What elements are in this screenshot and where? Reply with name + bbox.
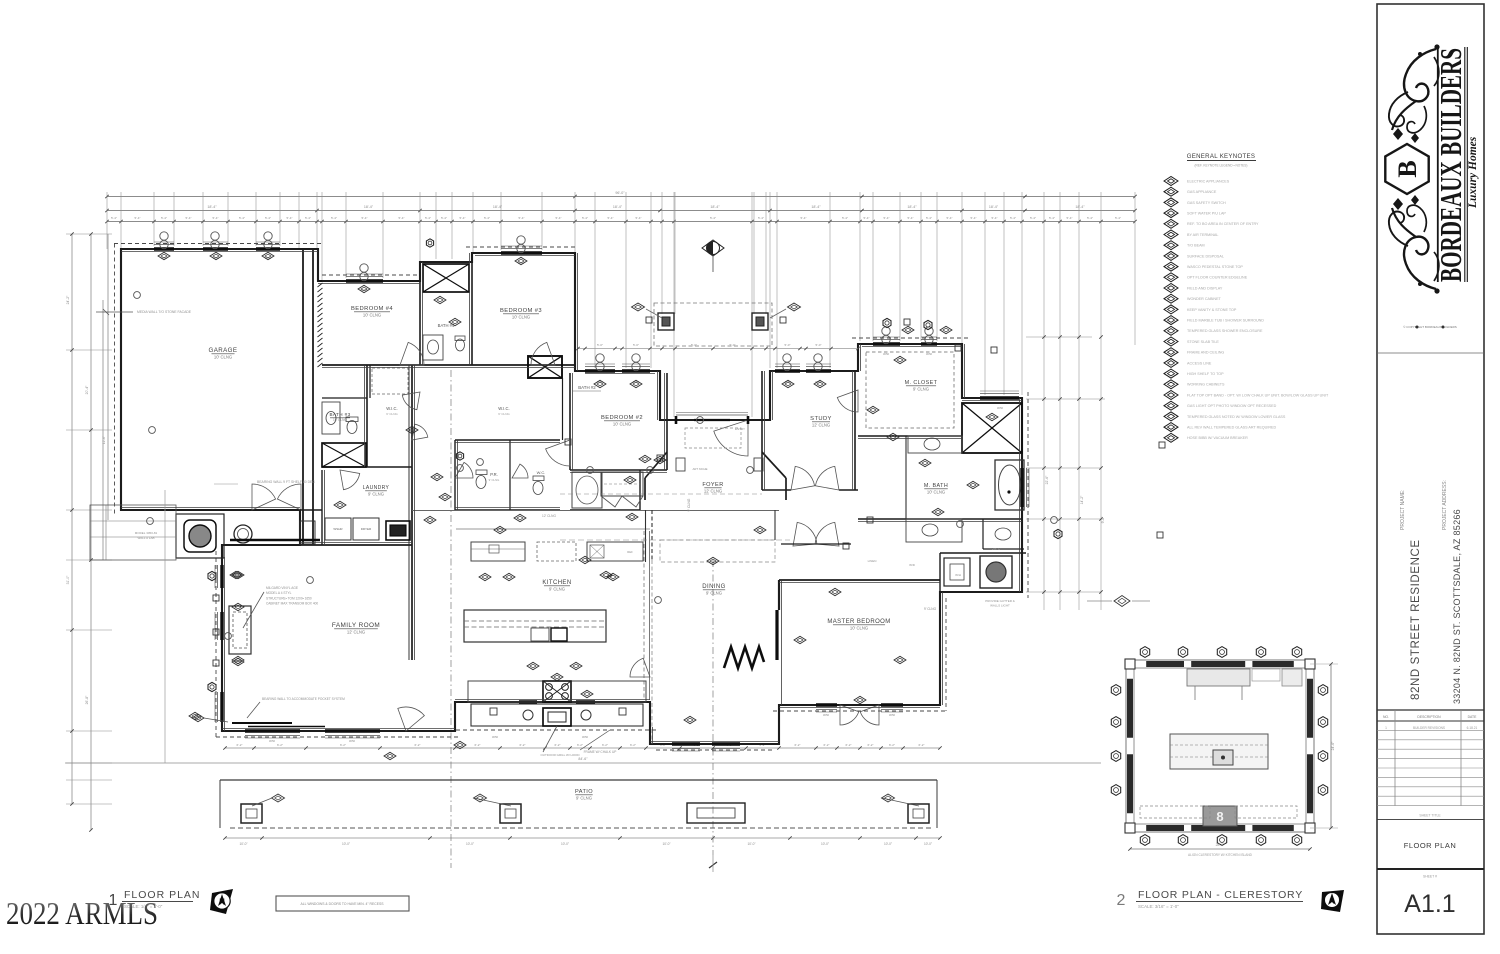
svg-text:9' CLNG: 9' CLNG: [549, 587, 565, 592]
sheet number band: [1377, 868, 1484, 870]
svg-text:6'-2": 6'-2": [919, 743, 925, 747]
wall poche parallel lines: [322, 367, 575, 369]
svg-text:BEDROOM #2: BEDROOM #2: [601, 415, 643, 421]
svg-text:WORKING CABINETS: WORKING CABINETS: [1187, 383, 1225, 387]
svg-text:6'-2": 6'-2": [602, 743, 608, 747]
keynote row 24: [1164, 423, 1178, 432]
svg-text:6' CLNG: 6' CLNG: [498, 412, 510, 416]
svg-text:5'-0": 5'-0": [691, 343, 697, 347]
mud threshold hatch: [230, 539, 320, 541]
bedroom2 walls: [569, 373, 571, 470]
svg-text:DESCRIPTION: DESCRIPTION: [1417, 715, 1441, 719]
windows kitchen south: [519, 700, 537, 703]
front entry door: [714, 420, 748, 456]
svg-text:6'-2": 6'-2": [630, 743, 636, 747]
keynote row 1: [1164, 177, 1178, 186]
bath4 west wall: [419, 262, 421, 365]
svg-text:N: N: [1329, 897, 1334, 906]
svg-text:5'-4": 5'-4": [971, 216, 977, 220]
svg-text:9' CLNG: 9' CLNG: [687, 498, 691, 511]
svg-text:10'-0": 10'-0": [466, 842, 474, 846]
svg-text:LAUNDRY: LAUNDRY: [363, 485, 390, 491]
svg-text:3050: 3050: [926, 352, 933, 356]
svg-text:5'-4": 5'-4": [1087, 216, 1093, 220]
clerestory island: [1170, 734, 1268, 769]
svg-text:SURFACE DISPOSAL: SURFACE DISPOSAL: [1187, 254, 1224, 258]
svg-text:B: B: [1393, 160, 1422, 177]
mud wh circle: [234, 525, 252, 543]
svg-text:6'-2": 6'-2": [555, 743, 561, 747]
family fireplace: [229, 606, 251, 654]
svg-text:12' CLNG: 12' CLNG: [812, 423, 830, 428]
bed2 door: [546, 440, 570, 466]
svg-text:PWDR: PWDR: [992, 547, 1001, 551]
svg-text:5'-4": 5'-4": [1067, 216, 1073, 220]
svg-text:PROJECT ADDRESS:: PROJECT ADDRESS:: [1442, 480, 1448, 530]
svg-text:KEEP VANITY & STONE TOP: KEEP VANITY & STONE TOP: [1187, 308, 1237, 312]
svg-text:BEARING WALL 9 FT SHELF 80 DEG: BEARING WALL 9 FT SHELF 80 DEG: [257, 480, 315, 484]
svg-text:FLAT TOP OPT BAND - OPT. W/ LO: FLAT TOP OPT BAND - OPT. W/ LOW CHALK UP…: [1187, 393, 1329, 397]
windows family south: [245, 729, 300, 732]
svg-text:6'-2": 6'-2": [795, 743, 801, 747]
svg-text:10'-0": 10'-0": [924, 842, 932, 846]
keynote row 18: [1164, 358, 1178, 367]
svg-text:GENERAL KEYNOTES: GENERAL KEYNOTES: [1187, 153, 1256, 160]
bath3 walls: [366, 365, 368, 467]
svg-text:5'-4": 5'-4": [362, 216, 368, 220]
svg-text:OPT FLOOR COUNTER EDGELINE: OPT FLOOR COUNTER EDGELINE: [1187, 276, 1248, 280]
svg-text:10' CLNG: 10' CLNG: [333, 418, 347, 422]
svg-text:TEMPERED GLASS NOTED W/ WIND: TEMPERED GLASS NOTED W/ WINDOW LOWER GLA…: [1187, 415, 1286, 419]
svg-text:5'-0": 5'-0": [633, 343, 639, 347]
svg-text:5'-0": 5'-0": [785, 343, 791, 347]
keynote row 20: [1164, 380, 1178, 389]
svg-text:FIELD MARBLE TUB / SHOWER SURR: FIELD MARBLE TUB / SHOWER SURROUND: [1187, 319, 1264, 323]
svg-text:5'-4": 5'-4": [111, 216, 117, 220]
svg-text:OUTDOOR GRILL W/ HOOD: OUTDOOR GRILL W/ HOOD: [540, 753, 580, 757]
bbq sink: [543, 708, 571, 726]
svg-text:2: 2: [1117, 892, 1126, 909]
bath4 toilet: [456, 339, 465, 351]
svg-text:LINEN: LINEN: [868, 559, 877, 563]
svg-text:A1.1: A1.1: [1404, 890, 1455, 918]
svg-text:18'-4": 18'-4": [1075, 205, 1085, 209]
svg-text:5'-4": 5'-4": [135, 216, 141, 220]
svg-text:3050: 3050: [889, 713, 896, 717]
hatched wall garage-bed4: [318, 280, 322, 282]
keynote row 15: [1164, 326, 1178, 335]
svg-text:MASTER BEDROOM: MASTER BEDROOM: [827, 619, 890, 625]
svg-text:FAMILY ROOM: FAMILY ROOM: [332, 622, 380, 629]
note box: [276, 896, 409, 911]
water heater pad outside: [176, 514, 224, 558]
family south door: [398, 707, 425, 731]
svg-text:PROJECT NAME:: PROJECT NAME:: [1400, 490, 1406, 530]
svg-text:6'-2": 6'-2": [889, 743, 895, 747]
svg-text:9' CLNG: 9' CLNG: [368, 492, 384, 497]
svg-text:5'-4": 5'-4": [1030, 216, 1036, 220]
patio columns: [241, 804, 262, 823]
bath2 walls: [570, 509, 640, 511]
svg-text:6.18.21: 6.18.21: [1467, 726, 1478, 730]
clerestory corner posts: [1125, 659, 1135, 669]
svg-text:5'-4": 5'-4": [608, 216, 614, 220]
svg-text:WSHR: WSHR: [333, 527, 343, 531]
svg-text:28'-0": 28'-0": [1216, 843, 1225, 847]
svg-text:5'-4": 5'-4": [161, 216, 167, 220]
garage south door arcs: [252, 484, 276, 510]
svg-text:5'-4": 5'-4": [460, 216, 466, 220]
svg-text:3050: 3050: [269, 739, 276, 743]
svg-text:9' CLNG: 9' CLNG: [706, 591, 722, 596]
gallery corridor header line: [412, 510, 779, 512]
svg-text:DRYER: DRYER: [361, 527, 372, 531]
keynote diamond right side: [1087, 600, 1112, 602]
svg-text:10'-0": 10'-0": [821, 842, 829, 846]
clerestory dim right: [1330, 664, 1332, 828]
svg-text:GAS APPLIANCE: GAS APPLIANCE: [1187, 190, 1217, 194]
dashed roof eave lines: [114, 243, 322, 245]
keynote row 19: [1164, 369, 1178, 378]
svg-text:BUILDER REVISIONS: BUILDER REVISIONS: [1413, 726, 1445, 730]
bath4 east wall: [471, 253, 473, 365]
kitchen range: [543, 681, 571, 702]
master west thick segments: [775, 610, 778, 660]
svg-text:KITCHEN: KITCHEN: [542, 580, 571, 586]
svg-text:18'-4": 18'-4": [989, 205, 999, 209]
svg-text:FRAME W/ CHALK UP: FRAME W/ CHALK UP: [584, 750, 617, 754]
svg-text:DATE: DATE: [1468, 715, 1478, 719]
clerestory 8 badge: [1203, 806, 1237, 826]
dining east cased opening: [774, 510, 776, 540]
hall powder walls: [455, 439, 560, 441]
svg-text:82ND STREET RESIDENCE: 82ND STREET RESIDENCE: [1410, 539, 1422, 700]
svg-text:5'-4": 5'-4": [926, 216, 932, 220]
svg-text:WASCO PEDESTAL STONE TOP: WASCO PEDESTAL STONE TOP: [1187, 265, 1243, 269]
ac closet: [528, 356, 562, 378]
laundry door: [340, 470, 360, 490]
laundry appliances: [325, 518, 351, 540]
svg-text:5'-4": 5'-4": [399, 216, 405, 220]
svg-text:W.I.C.: W.I.C.: [498, 406, 509, 411]
svg-text:18'-4": 18'-4": [493, 205, 503, 209]
clerestory interior stubs: [1194, 686, 1196, 700]
svg-text:ACCESS LINE: ACCESS LINE: [1187, 361, 1212, 365]
small circles scattered: [134, 292, 141, 299]
svg-text:SOFT WATER P/U LAP: SOFT WATER P/U LAP: [1187, 212, 1226, 216]
svg-text:WONDER CABINET: WONDER CABINET: [1187, 297, 1222, 301]
svg-text:5'-4": 5'-4": [213, 216, 219, 220]
svg-text:Luxury Homes: Luxury Homes: [1467, 136, 1479, 209]
svg-text:BEDROOM #4: BEDROOM #4: [351, 306, 393, 312]
family west wall keynotes: [208, 571, 216, 580]
svg-text:3050: 3050: [997, 406, 1004, 410]
svg-text:WALLS LIGHT: WALLS LIGHT: [990, 604, 1010, 608]
mbath vanity south: [906, 519, 962, 542]
svg-text:SCALE: 3/16" = 1'-0": SCALE: 3/16" = 1'-0": [1138, 904, 1179, 909]
keynote row 4: [1164, 209, 1178, 218]
svg-text:3050: 3050: [582, 735, 589, 739]
title block border: [1377, 4, 1484, 934]
north compass 2: [1321, 890, 1344, 912]
keynote row 16: [1164, 337, 1178, 346]
svg-text:GAS LIGHT OPT PHOTO WINDOW OPT: GAS LIGHT OPT PHOTO WINDOW OPT RECESSED: [1187, 404, 1277, 408]
patio bench: [687, 803, 745, 823]
svg-text:12' CLNG: 12' CLNG: [542, 514, 556, 518]
svg-text:NO.: NO.: [1383, 715, 1389, 719]
svg-text:6'-2": 6'-2": [340, 743, 346, 747]
bedroom4 south wall: [322, 364, 575, 366]
dimension lines bottom: [225, 747, 940, 749]
window sills outside walls: [154, 244, 174, 246]
svg-text:18'-4": 18'-4": [364, 205, 374, 209]
hall arc near wic: [412, 424, 428, 440]
bed3 door: [531, 342, 555, 365]
svg-text:ELECTRIC APPLIANCES: ELECTRIC APPLIANCES: [1187, 179, 1230, 183]
dining west cased opening: [645, 510, 647, 562]
svg-text:BY AIR TERMINAL: BY AIR TERMINAL: [1187, 233, 1218, 237]
svg-text:FOYER: FOYER: [702, 482, 723, 488]
svg-text:5'-4": 5'-4": [582, 216, 588, 220]
entry sill lines: [676, 414, 748, 416]
svg-text:18'-4": 18'-4": [907, 205, 917, 209]
keynote row 21: [1164, 391, 1178, 400]
foyer art niche rects: [676, 458, 685, 471]
keynote row 23: [1164, 412, 1178, 421]
laundry walls: [321, 470, 323, 545]
svg-text:12' CLNG: 12' CLNG: [347, 630, 365, 635]
utility box: [944, 558, 970, 586]
small squares keynote: [904, 319, 910, 325]
bath4 vanity: [423, 335, 443, 360]
svg-text:20'-4": 20'-4": [85, 385, 89, 394]
svg-text:5'-4": 5'-4": [425, 216, 431, 220]
mud hall walls: [300, 509, 322, 511]
svg-text:REF. TO BO AREA IN CENTER OF E: REF. TO BO AREA IN CENTER OF ENTRY: [1187, 222, 1259, 226]
svg-text:5'-4": 5'-4": [1049, 216, 1055, 220]
svg-text:M. BATH: M. BATH: [924, 483, 948, 489]
svg-text:W/D: W/D: [909, 563, 916, 567]
svg-text:10'-0": 10'-0": [342, 842, 350, 846]
svg-text:9' CLNG: 9' CLNG: [489, 478, 500, 482]
svg-text:5'-4": 5'-4": [801, 216, 807, 220]
svg-text:5'-4": 5'-4": [884, 216, 890, 220]
keynote row 6: [1164, 230, 1178, 239]
svg-text:6'-2": 6'-2": [520, 743, 526, 747]
windows master south: [816, 703, 837, 706]
windows dining south: [672, 742, 700, 745]
centerline vertical center: [450, 370, 452, 868]
svg-text:HIGH SHELF TO TOP: HIGH SHELF TO TOP: [1187, 372, 1224, 376]
logo scrollwork: [1389, 44, 1440, 143]
keynote row 8: [1164, 251, 1178, 260]
svg-text:3050: 3050: [823, 713, 830, 717]
svg-text:18'-4": 18'-4": [811, 205, 821, 209]
bbq stools: [523, 710, 533, 720]
svg-text:FLOOR PLAN - CLERESTORY: FLOOR PLAN - CLERESTORY: [1138, 889, 1303, 901]
svg-text:MODEL 3050-81: MODEL 3050-81: [135, 531, 158, 535]
keynote row 14: [1164, 316, 1178, 325]
keynote row 12: [1164, 294, 1178, 303]
study walls: [761, 371, 763, 490]
svg-text:N: N: [219, 898, 225, 907]
mbath vanity north: [908, 436, 962, 453]
svg-text:ART NICHE: ART NICHE: [693, 467, 708, 471]
svg-text:2022 ARMLS: 2022 ARMLS: [6, 895, 158, 931]
dining ceiling dashed: [660, 540, 775, 562]
mcloset walls: [858, 435, 962, 437]
hall to master double doors: [793, 522, 817, 546]
outdoor bbq counter: [471, 704, 643, 726]
svg-text:5'-4": 5'-4": [1115, 216, 1121, 220]
svg-text:WALL A LAB: WALL A LAB: [138, 536, 155, 540]
powder door: [455, 462, 473, 478]
bath3 toilet: [347, 421, 357, 434]
keynote row 7: [1164, 241, 1178, 250]
family pocket door lines: [232, 722, 292, 724]
svg-text:6'-2": 6'-2": [846, 743, 852, 747]
svg-text:STONE SLAB TILE: STONE SLAB TILE: [1187, 340, 1219, 344]
svg-text:10' CLNG: 10' CLNG: [927, 490, 945, 495]
svg-text:W.I.C.: W.I.C.: [386, 406, 397, 411]
svg-text:MEDIA WALL T/O STONE FACADE: MEDIA WALL T/O STONE FACADE: [137, 310, 192, 314]
svg-text:PROVIDE GUTTER &: PROVIDE GUTTER &: [985, 599, 1015, 603]
garage east double wall: [302, 249, 304, 545]
dimension extension lines from top: [106, 192, 108, 249]
mbath walls: [858, 518, 1022, 520]
svg-text:5'-4": 5'-4": [908, 216, 914, 220]
svg-text:84'-6": 84'-6": [578, 757, 588, 761]
svg-text:3050: 3050: [883, 352, 890, 356]
svg-text:T/O BEAM: T/O BEAM: [1187, 244, 1205, 248]
kitchen island: [464, 610, 606, 642]
svg-text:P.R.: P.R.: [490, 472, 498, 477]
svg-text:ALIGN CLERESTORY W/ KITCHEN IS: ALIGN CLERESTORY W/ KITCHEN ISLAND: [1188, 853, 1253, 857]
wc door: [512, 464, 528, 478]
pantry shelves butler: [582, 541, 584, 543]
svg-text:10'-0": 10'-0": [747, 842, 755, 846]
svg-text:BEDROOM #3: BEDROOM #3: [500, 308, 542, 314]
svg-text:6'-2": 6'-2": [415, 743, 421, 747]
svg-text:5'-4": 5'-4": [758, 216, 764, 220]
svg-text:14'-2": 14'-2": [1080, 495, 1084, 504]
svg-text:STRUCTURE• TOM 1200• 1650: STRUCTURE• TOM 1200• 1650: [266, 596, 312, 600]
utility room walls: [940, 552, 1026, 554]
mcloset door: [837, 390, 858, 412]
svg-text:5'-4": 5'-4": [484, 216, 490, 220]
svg-text:10' CLNG: 10' CLNG: [363, 313, 381, 318]
keynote diamonds scattered on plan: [158, 252, 170, 260]
svg-text:5'-4": 5'-4": [992, 216, 998, 220]
clerestory top interior rects: [1187, 669, 1250, 686]
svg-text:5'-4": 5'-4": [864, 216, 870, 220]
svg-text:9' CLNG: 9' CLNG: [913, 387, 929, 392]
svg-text:W.C.: W.C.: [537, 470, 546, 475]
svg-text:6'-2": 6'-2": [577, 743, 583, 747]
svg-text:12'-6": 12'-6": [102, 436, 106, 444]
revision table: [1377, 709, 1484, 711]
svg-text:10' CLNG: 10' CLNG: [512, 315, 530, 320]
svg-text:5'-4": 5'-4": [1010, 216, 1016, 220]
north compass 1: [210, 889, 233, 914]
svg-text:5'-4": 5'-4": [636, 216, 642, 220]
svg-text:5'-4": 5'-4": [947, 216, 953, 220]
svg-text:BATH #2: BATH #2: [578, 385, 596, 390]
svg-text:18'-4": 18'-4": [710, 205, 720, 209]
svg-text:6'-2": 6'-2": [824, 743, 830, 747]
svg-text:5'-4": 5'-4": [842, 216, 848, 220]
mbath shower: [962, 403, 1022, 453]
svg-text:GAS SAFETY SWITCH: GAS SAFETY SWITCH: [1187, 201, 1226, 205]
kitchen pantry door: [630, 658, 650, 677]
svg-text:HOSE BIBB W/ VACUUM BREAKER: HOSE BIBB W/ VACUUM BREAKER: [1187, 436, 1248, 440]
svg-text:BEARING WALL TO ACCOMMODATE PO: BEARING WALL TO ACCOMMODATE POCKET SYSTE…: [262, 697, 345, 701]
svg-text:M. CLOSET: M. CLOSET: [905, 380, 938, 386]
svg-text:9' CLNG: 9' CLNG: [924, 607, 937, 611]
svg-text:SHEET #: SHEET #: [1423, 875, 1437, 879]
bath2 tub: [572, 472, 602, 508]
svg-text:10' CLNG: 10' CLNG: [214, 355, 232, 360]
svg-text:5'-0": 5'-0": [730, 343, 736, 347]
svg-text:ALL REV WALL TEMPERED GLASS A: ALL REV WALL TEMPERED GLASS ART REQUIRED: [1187, 426, 1276, 430]
svg-text:5'-4": 5'-4": [287, 216, 293, 220]
master north wall: [779, 579, 940, 581]
hex nuts near top: [883, 318, 891, 327]
keynote row 13: [1164, 305, 1178, 314]
svg-text:22'-6": 22'-6": [1045, 475, 1049, 484]
svg-text:5'-4": 5'-4": [265, 216, 271, 220]
svg-text:26'-8": 26'-8": [85, 695, 89, 704]
wic2: [601, 472, 643, 496]
bed4 door: [400, 342, 424, 365]
svg-text:5'-4": 5'-4": [556, 216, 562, 220]
powder toilet: [476, 476, 486, 489]
clerestory bottom small rects: [1140, 806, 1210, 818]
svg-text:12' CLNG: 12' CLNG: [704, 489, 722, 494]
kitchen north cabinets: [471, 542, 525, 561]
svg-text:6'-2": 6'-2": [868, 743, 874, 747]
svg-text:(REF. KEYNOTE LEGEND • NOTES): (REF. KEYNOTE LEGEND • NOTES): [1194, 164, 1247, 168]
windows on top walls: [154, 247, 174, 250]
svg-text:31'-0": 31'-0": [66, 575, 70, 584]
svg-text:BATH #3: BATH #3: [329, 412, 350, 417]
bath3 shower: [322, 443, 366, 467]
bath3 vanity: [322, 402, 340, 434]
svg-text:MODEL A 4 STYL: MODEL A 4 STYL: [266, 591, 292, 595]
keynote row 10: [1164, 273, 1178, 282]
svg-text:3050: 3050: [349, 739, 356, 743]
bath4 shower: [423, 264, 469, 292]
svg-text:SHEET TITLE: SHEET TITLE: [1419, 814, 1441, 818]
wc toilet: [533, 482, 543, 495]
study double doors: [791, 466, 815, 490]
svg-text:6'-2": 6'-2": [277, 743, 283, 747]
svg-text:5'-4": 5'-4": [710, 216, 716, 220]
svg-text:5'-0": 5'-0": [597, 343, 603, 347]
clerestory hex bolts: [1140, 647, 1149, 658]
svg-text:5'-4": 5'-4": [239, 216, 245, 220]
svg-text:18'-4": 18'-4": [613, 205, 623, 209]
kitchen hall header line: [456, 528, 650, 530]
ww zigzag: [724, 647, 764, 668]
svg-text:9' CLNG: 9' CLNG: [576, 796, 592, 801]
svg-text:6'-2": 6'-2": [237, 743, 243, 747]
sheet title band: [1377, 819, 1484, 821]
svg-text:1: 1: [1385, 726, 1387, 730]
windows family west: [220, 565, 223, 588]
kitchen east dashed cabinets: [643, 531, 645, 700]
keynote row 2: [1164, 187, 1178, 196]
